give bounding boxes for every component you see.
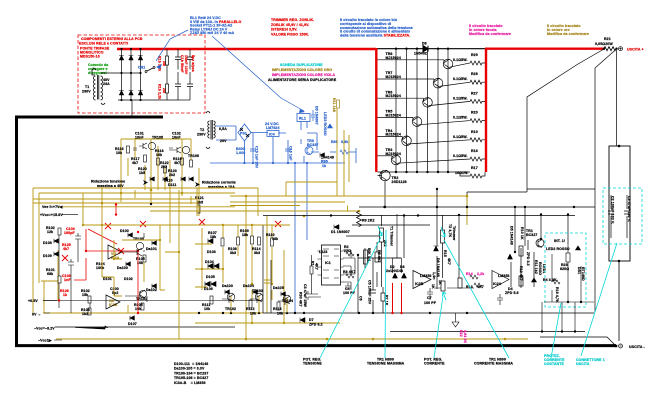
svg-text:D6 1N4148: D6 1N4148 — [436, 258, 440, 277]
svg-text:TR102: TR102 — [225, 307, 236, 311]
svg-text:10k: 10k — [204, 307, 210, 311]
svg-text:R21: R21 — [604, 37, 611, 41]
svg-text:10nF: 10nF — [135, 136, 144, 140]
svg-text:USCITA +: USCITA + — [627, 48, 644, 52]
svg-text:D111: D111 — [168, 183, 176, 187]
svg-text:100 PF: 100 PF — [424, 301, 437, 305]
svg-text:ISTERESI 3,5V.: ISTERESI 3,5V. — [271, 28, 297, 32]
svg-text:18k: 18k — [272, 237, 278, 241]
svg-text:D8: D8 — [422, 42, 427, 46]
svg-text:C6: C6 — [359, 296, 363, 301]
svg-text:LM7824: LM7824 — [266, 126, 280, 130]
svg-text:BT149D: BT149D — [581, 267, 585, 281]
svg-text:2k2: 2k2 — [169, 173, 175, 177]
svg-text:23A: 23A — [103, 82, 110, 86]
svg-text:10mF 100V: 10mF 100V — [184, 55, 188, 75]
svg-text:4k7: 4k7 — [63, 247, 69, 251]
svg-text:+Vcc=+15.8V: +Vcc=+15.8V — [40, 213, 63, 217]
svg-text:MJ15024: MJ15024 — [386, 56, 401, 60]
svg-text:0,5A: 0,5A — [219, 127, 227, 131]
svg-text:3k3: 3k3 — [230, 251, 236, 255]
svg-text:−Vcc1▶: −Vcc1▶ — [38, 339, 53, 343]
svg-text:1k: 1k — [63, 293, 67, 297]
svg-text:4K7: 4K7 — [477, 285, 484, 289]
svg-text:1N5402: 1N5402 — [414, 52, 427, 56]
svg-text:L123: L123 — [319, 250, 327, 254]
svg-text:1K: 1K — [431, 284, 435, 289]
svg-text:R16 4,7K: R16 4,7K — [555, 287, 559, 303]
svg-text:R28: R28 — [471, 72, 478, 76]
svg-text:C9 47uF 100 V.: C9 47uF 100 V. — [627, 196, 631, 222]
svg-text:0.1Ω5W.: 0.1Ω5W. — [453, 77, 468, 81]
svg-text:D1 1N4007: D1 1N4007 — [331, 230, 350, 234]
svg-text:CN1: CN1 — [138, 66, 145, 70]
svg-text:LED3 ROSSO: LED3 ROSSO — [323, 112, 327, 136]
svg-text:R12 4K7: R12 4K7 — [519, 266, 523, 281]
svg-text:COMPONENTI ESTERNI ALLA PCB: COMPONENTI ESTERNI ALLA PCB — [81, 37, 143, 41]
svg-text:C2 100uF 100 V.: C2 100uF 100 V. — [611, 196, 615, 224]
svg-text:IMPLEMENTAZIONI COLORE VIOLA: IMPLEMENTAZIONI COLORE VIOLA — [272, 73, 336, 77]
svg-text:0.1Ω5W.: 0.1Ω5W. — [453, 116, 468, 120]
svg-text:5p2: 5p2 — [112, 291, 118, 295]
svg-text:IC3A-B = LM358: IC3A-B = LM358 — [174, 381, 206, 385]
svg-text:4,64 2K: 4,64 2K — [463, 330, 467, 343]
svg-text:1K: 1K — [438, 280, 442, 285]
svg-text:R10 1K: R10 1K — [520, 227, 524, 240]
svg-text:D108: D108 — [43, 241, 52, 245]
svg-text:Riduzione tensione: Riduzione tensione — [91, 180, 125, 184]
svg-text:Modifica da confermare: Modifica da confermare — [547, 32, 589, 36]
svg-text:Da100-105 = 3.3V: Da100-105 = 3.3V — [174, 367, 205, 371]
svg-text:12k: 12k — [47, 230, 53, 234]
svg-text:D5 1N4148: D5 1N4148 — [510, 226, 514, 245]
svg-text:LED2 ROSSO: LED2 ROSSO — [546, 247, 570, 251]
svg-text:ALIMENTATORE SERIA DUPLICATOR: ALIMENTATORE SERIA DUPLICATORE — [268, 78, 337, 82]
svg-text:2K2: 2K2 — [383, 240, 387, 247]
svg-text:IC1: IC1 — [325, 261, 331, 265]
svg-text:2SD1128: 2SD1128 — [392, 180, 407, 184]
svg-text:0.1Ω5W.: 0.1Ω5W. — [453, 154, 468, 158]
svg-text:MJ15024: MJ15024 — [386, 113, 401, 117]
svg-text:4k7: 4k7 — [174, 161, 180, 165]
svg-text:230V: 230V — [82, 90, 91, 94]
svg-text:1k2: 1k2 — [82, 312, 88, 316]
svg-text:C15 1uF 25V: C15 1uF 25V — [255, 146, 259, 169]
svg-text:ZPD 5.6: ZPD 5.6 — [505, 291, 519, 295]
svg-text:T1: T1 — [85, 85, 89, 89]
svg-text:10Ω1W.: 10Ω1W. — [455, 171, 468, 175]
svg-text:COSTANTE: COSTANTE — [544, 362, 564, 366]
svg-text:ZPD 3.3: ZPD 3.3 — [526, 252, 530, 266]
svg-text:LM358: LM358 — [420, 274, 432, 278]
svg-text:MJ15024: MJ15024 — [386, 133, 401, 137]
svg-text:100k: 100k — [96, 266, 104, 270]
svg-text:MJ15024: MJ15024 — [386, 152, 401, 156]
svg-text:10k: 10k — [250, 312, 256, 316]
svg-text:100pF: 100pF — [64, 231, 75, 235]
svg-text:Trimmer: Trimmer — [452, 226, 456, 241]
svg-text:R11 1k8: R11 1k8 — [332, 98, 336, 112]
svg-text:BC327: BC327 — [526, 233, 538, 237]
svg-text:D110: D110 — [164, 179, 173, 183]
svg-text:dalla tensione ausiliaria STAB: dalla tensione ausiliaria STABILIZZATA. — [340, 34, 410, 38]
svg-text:MJ15024: MJ15024 — [386, 75, 401, 79]
svg-text:D101: D101 — [103, 277, 112, 281]
svg-text:22Ω: 22Ω — [344, 249, 351, 253]
svg-text:R113: R113 — [273, 307, 282, 311]
svg-text:TRIMMER REG. ZOBLIK.: TRIMMER REG. ZOBLIK. — [271, 18, 314, 22]
svg-text:4k7: 4k7 — [132, 161, 138, 165]
svg-text:D7: D7 — [309, 318, 314, 322]
svg-text:Riduzione corrente: Riduzione corrente — [202, 181, 236, 185]
svg-text:+0.5V: +0.5V — [28, 299, 38, 303]
svg-text:Da104: Da104 — [243, 284, 254, 288]
svg-text:10k: 10k — [156, 153, 162, 157]
svg-text:TR105: TR105 — [152, 136, 163, 140]
svg-text:C3 47uF 25W: C3 47uF 25W — [303, 284, 307, 308]
svg-text:3k3: 3k3 — [254, 251, 260, 255]
svg-text:T1 Trimmer: T1 Trimmer — [390, 226, 394, 247]
svg-text:Da100: Da100 — [117, 266, 128, 270]
svg-text:20V: 20V — [220, 139, 227, 143]
svg-text:MJ15024: MJ15024 — [386, 94, 401, 98]
svg-text:USCITA -: USCITA - — [629, 345, 645, 349]
svg-text:R14: R14 — [466, 272, 473, 276]
svg-text:D106: D106 — [204, 287, 213, 291]
svg-text:1,4n: 1,4n — [432, 272, 436, 279]
svg-text:C5 100uF 25V: C5 100uF 25V — [368, 280, 372, 305]
svg-text:SCHEDA DUPLICATORE: SCHEDA DUPLICATORE — [280, 63, 323, 67]
svg-text:INT. 1/: INT. 1/ — [554, 239, 565, 243]
svg-text:R36: R36 — [321, 160, 328, 164]
svg-text:LM358: LM358 — [498, 274, 510, 278]
svg-text:Da105: Da105 — [273, 286, 284, 290]
svg-text:CORRENTE: CORRENTE — [424, 362, 445, 366]
svg-text:USCITA: USCITA — [576, 362, 590, 366]
svg-text:15k: 15k — [82, 293, 88, 297]
svg-text:D5 1N4007: D5 1N4007 — [315, 106, 319, 125]
svg-text:0.1Ω5W.: 0.1Ω5W. — [453, 58, 468, 62]
svg-text:18k: 18k — [242, 233, 248, 237]
svg-text:T2: T2 — [200, 128, 204, 132]
svg-text:230V: 230V — [197, 133, 206, 137]
svg-text:Da103: Da103 — [222, 284, 233, 288]
svg-text:VALORE FISSO 150K.: VALORE FISSO 150K. — [271, 32, 309, 36]
svg-text:0.1Ω5W.: 0.1Ω5W. — [453, 135, 468, 139]
svg-text:C16 1uF: C16 1uF — [289, 146, 293, 161]
svg-text:0,05Ω20W: 0,05Ω20W — [595, 42, 613, 46]
svg-text:5pz a/pza: 5pz a/pza — [191, 55, 195, 72]
svg-text:0V →: 0V → — [32, 313, 41, 317]
svg-text:1k5: 1k5 — [197, 201, 203, 205]
svg-text:D107: D107 — [128, 322, 137, 326]
svg-text:R18: R18 — [471, 149, 478, 153]
svg-text:C7: C7 — [427, 296, 432, 300]
svg-text:TR106: TR106 — [188, 154, 199, 158]
svg-text:ZJ3D 350 mH 24 V 40 mA: ZJ3D 350 mH 24 V 40 mA — [190, 31, 235, 35]
svg-text:Modifica da confermare: Modifica da confermare — [469, 32, 511, 36]
svg-text:MDS150-16: MDS150-16 — [80, 54, 100, 58]
svg-text:D100: D100 — [120, 229, 129, 233]
svg-text:R27: R27 — [471, 91, 478, 95]
svg-text:CORRENTE MASSIMA: CORRENTE MASSIMA — [474, 362, 513, 366]
svg-text:10nF: 10nF — [172, 136, 181, 140]
svg-text:D102: D102 — [124, 277, 133, 281]
svg-text:IMPLEMENTAZIONI COLORE ORO: IMPLEMENTAZIONI COLORE ORO — [272, 68, 332, 72]
svg-text:0.1Ω5W.: 0.1Ω5W. — [453, 96, 468, 100]
svg-text:R29: R29 — [471, 53, 478, 57]
svg-text:4K7: 4K7 — [447, 258, 451, 265]
svg-text:R17: R17 — [471, 166, 478, 170]
svg-text:IC4: IC4 — [269, 133, 275, 137]
svg-text:D100-111 = 1N4148: D100-111 = 1N4148 — [174, 362, 208, 366]
svg-text:D105: D105 — [206, 275, 215, 279]
svg-text:massima a 40V: massima a 40V — [97, 184, 124, 188]
svg-text:4K7: 4K7 — [315, 263, 319, 270]
svg-text:R5 4K7: R5 4K7 — [377, 250, 381, 263]
svg-text:ZOBLIK 45,9V / 41,9V.: ZOBLIK 45,9V / 41,9V. — [271, 23, 309, 27]
svg-text:ZPD 8.2: ZPD 8.2 — [309, 323, 323, 327]
svg-text:3,3k: 3,3k — [341, 140, 348, 144]
svg-text:R4 3,3K: R4 3,3K — [543, 278, 557, 282]
svg-text:10k: 10k — [116, 151, 122, 155]
svg-text:TR100-104 = BC237: TR100-104 = BC237 — [174, 371, 208, 375]
svg-text:R19: R19 — [471, 130, 478, 134]
svg-text:TENSIONE MASSIMA: TENSIONE MASSIMA — [367, 362, 405, 366]
svg-text:R30 4K7: R30 4K7 — [299, 292, 303, 307]
svg-text:−Vcc=−8.2V: −Vcc=−8.2V — [34, 327, 55, 331]
svg-text:IC2A: IC2A — [493, 282, 502, 286]
svg-text:1.000: 1.000 — [236, 151, 245, 155]
svg-text:D103: D103 — [207, 250, 216, 254]
svg-text:TENSIONE: TENSIONE — [303, 362, 322, 366]
svg-text:1nF: 1nF — [64, 278, 71, 282]
svg-text:R9 2K2: R9 2K2 — [362, 219, 375, 223]
svg-text:ESCLUSI RELE e CONTATTI: ESCLUSI RELE e CONTATTI — [79, 41, 128, 45]
svg-text:10k: 10k — [277, 312, 283, 316]
svg-text:1k5: 1k5 — [139, 171, 145, 175]
svg-text:IC2B: IC2B — [415, 282, 424, 286]
svg-text:R15: R15 — [443, 250, 447, 257]
svg-text:R3 4K7: R3 4K7 — [343, 270, 356, 274]
svg-text:D109: D109 — [43, 254, 52, 258]
svg-text:Da101: Da101 — [146, 247, 157, 251]
svg-text:Vee f=+7V◀: Vee f=+7V◀ — [42, 205, 64, 209]
svg-text:TR105-106 = BC327: TR105-106 = BC327 — [174, 376, 208, 380]
svg-text:Da102: Da102 — [146, 288, 157, 292]
svg-text:2x1N4148: 2x1N4148 — [386, 269, 403, 273]
svg-text:R112: R112 — [246, 307, 255, 311]
svg-text:R20: R20 — [471, 111, 478, 115]
svg-text:RL1: RL1 — [299, 117, 306, 121]
svg-text:1k: 1k — [322, 164, 326, 168]
svg-text:2,2k: 2,2k — [477, 272, 484, 276]
svg-text:68k: 68k — [47, 272, 53, 276]
svg-text:R1b 2,2k: R1b 2,2k — [158, 84, 162, 99]
svg-text:PS1: PS1 — [240, 132, 247, 136]
